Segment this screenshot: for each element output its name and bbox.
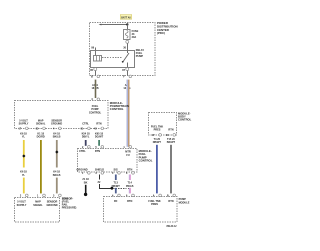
svg-text:SIG: SIG — [114, 169, 118, 172]
svg-text:YL: YL — [22, 136, 26, 139]
svg-text:SUPPLY: SUPPLY — [19, 123, 29, 126]
svg-text:SUPPLY: SUPPLY — [17, 204, 27, 207]
svg-text:CTRL: CTRL — [82, 123, 89, 126]
svg-text:RTN: RTN — [96, 123, 101, 126]
svg-text:8W-30-12: 8W-30-12 — [167, 226, 178, 228]
svg-text:B: B — [91, 76, 93, 79]
svg-text:RTN: RTN — [127, 169, 132, 172]
svg-text:DG/WT: DG/WT — [95, 136, 104, 139]
svg-text:DB/WT: DB/WT — [153, 141, 162, 144]
svg-text:DG/RD: DG/RD — [37, 136, 45, 139]
svg-text:SIGNAL: SIGNAL — [33, 204, 43, 207]
svg-text:FU: FU — [126, 154, 130, 157]
svg-text:PRESSURE): PRESSURE) — [62, 207, 77, 210]
svg-text:CONTROL: CONTROL — [110, 107, 124, 111]
svg-text:RTN: RTN — [168, 129, 173, 132]
svg-text:RTN: RTN — [168, 200, 173, 203]
svg-text:PK/LB: PK/LB — [126, 185, 134, 188]
svg-text:DB/WT: DB/WT — [112, 185, 121, 188]
svg-text:MODULE: MODULE — [179, 201, 190, 204]
svg-text:YL: YL — [22, 174, 26, 177]
svg-text:BK/LB: BK/LB — [53, 174, 61, 177]
svg-text:GROUND: GROUND — [46, 204, 57, 207]
svg-text:PUMP: PUMP — [136, 55, 144, 58]
svg-text:BATT A0: BATT A0 — [121, 16, 131, 19]
svg-text:SIGNAL: SIGNAL — [36, 123, 46, 126]
svg-text:CONTROL: CONTROL — [178, 118, 192, 122]
svg-text:(PDC): (PDC) — [157, 31, 165, 35]
svg-text:GROUND: GROUND — [51, 123, 62, 126]
svg-text:DB/YL: DB/YL — [82, 136, 90, 139]
svg-text:20A: 20A — [132, 36, 137, 39]
svg-text:PRES: PRES — [154, 129, 161, 132]
svg-text:BK/WT: BK/WT — [167, 141, 176, 144]
svg-text:BK/LB: BK/LB — [53, 136, 61, 139]
svg-text:PRES: PRES — [151, 203, 158, 206]
svg-text:CONTROL: CONTROL — [139, 159, 153, 163]
svg-text:BK: BK — [84, 181, 88, 184]
svg-text:FD: FD — [114, 200, 118, 203]
svg-text:RTN: RTN — [95, 150, 100, 153]
svg-text:CTRL: CTRL — [79, 150, 86, 153]
svg-text:RTN: RTN — [127, 200, 132, 203]
svg-text:CONTROL: CONTROL — [89, 111, 102, 114]
